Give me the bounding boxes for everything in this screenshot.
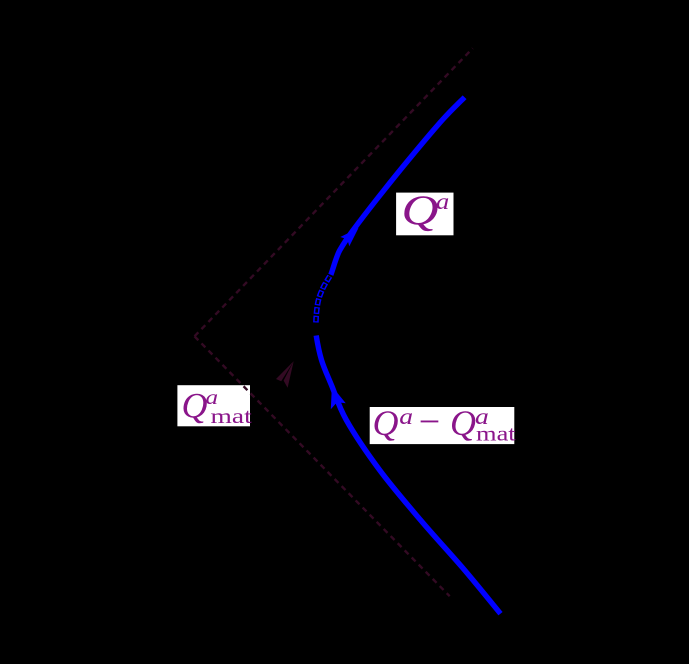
blue arrowhead on upper branch — [340, 228, 358, 246]
svg-text:−: − — [419, 401, 440, 443]
svg-text:a: a — [436, 190, 449, 215]
label Q^a_mat (white box) — [177, 385, 252, 428]
light cone upper dashed line — [195, 48, 473, 336]
svg-text:mat: mat — [476, 423, 516, 446]
svg-text:Q: Q — [402, 188, 439, 235]
blue arrowhead on lower branch — [331, 386, 346, 409]
maroon arrowhead Q_mat direction — [276, 361, 294, 388]
label Q^a - Q^a_mat (white box) — [370, 401, 516, 446]
blue worldline upper branch (solid) — [331, 97, 465, 275]
light cone lower dashed line — [195, 336, 450, 596]
blue worldline dashed segment near vertex — [316, 276, 330, 322]
label Q^a (white box) — [396, 188, 453, 236]
svg-text:mat: mat — [211, 405, 252, 428]
svg-text:Q: Q — [182, 386, 208, 426]
svg-text:a: a — [399, 404, 413, 429]
svg-text:Q: Q — [450, 403, 476, 443]
svg-text:Q: Q — [373, 403, 399, 443]
blue worldline lower branch (solid) — [316, 336, 500, 614]
black hollow of dashed segment — [316, 276, 330, 322]
